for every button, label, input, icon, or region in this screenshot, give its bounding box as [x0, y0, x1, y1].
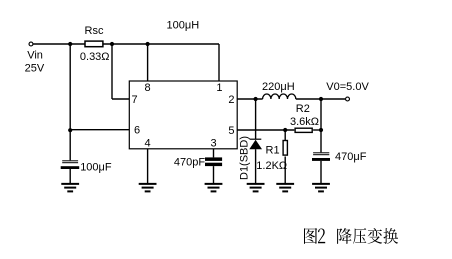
wire pin5 feedback [237, 129, 294, 131]
node switch junction [254, 97, 258, 101]
op-amp U1 (regulator IC) [129, 81, 237, 149]
resistor Rsc [85, 41, 103, 47]
wire pin8 drop [147, 44, 149, 81]
svg-text:1: 1 [216, 82, 222, 94]
terminal V0 [346, 97, 350, 101]
wire to output terminal [296, 98, 345, 100]
caption fig2 text (drawn CJK glyphs) [304, 228, 398, 244]
svg-text:220μH: 220μH [262, 81, 295, 93]
svg-text:D1(SBD): D1(SBD) [239, 136, 251, 180]
wire pin1 drop [218, 44, 220, 81]
node pin6 junction [68, 128, 72, 132]
node input junction [68, 42, 72, 46]
svg-text:2: 2 [228, 94, 234, 106]
svg-text:6: 6 [134, 125, 140, 137]
svg-text:R1: R1 [266, 145, 280, 157]
wire 100uF to ground [69, 169, 71, 184]
svg-text:4: 4 [144, 137, 150, 149]
svg-text:100μH: 100μH [167, 20, 200, 32]
diode D1 (SBD) [249, 99, 262, 184]
ground [247, 184, 265, 192]
svg-text:470pF: 470pF [174, 156, 205, 168]
ground [205, 184, 223, 192]
wire pin4 to ground [147, 149, 149, 184]
svg-text:0.33Ω: 0.33Ω [80, 51, 110, 63]
svg-text:8: 8 [144, 82, 150, 94]
svg-text:100μF: 100μF [80, 161, 112, 173]
capacitor 470uF [312, 152, 330, 161]
resistor R2 [295, 128, 312, 132]
resistor R1 [283, 130, 287, 184]
node after Rsc [110, 42, 114, 46]
wire pin2 [237, 98, 262, 100]
wire input left branch [69, 44, 71, 160]
svg-text:Vin: Vin [27, 49, 43, 61]
capacitor 470pF [205, 157, 222, 166]
wire top rail [33, 43, 219, 45]
wire 470pF to ground [213, 166, 215, 183]
svg-text:V0=5.0V: V0=5.0V [326, 81, 369, 93]
ground [276, 184, 294, 192]
svg-text:25V: 25V [25, 62, 45, 74]
wire output branch vertical [320, 99, 322, 152]
ground [139, 184, 157, 192]
svg-text:Rsc: Rsc [85, 25, 104, 37]
svg-text:7: 7 [131, 94, 137, 106]
node R1 junction [283, 128, 287, 132]
node output junction [319, 97, 323, 101]
wire 470uF to ground [320, 161, 322, 184]
ground [312, 184, 330, 192]
inductor 220uH [263, 94, 296, 99]
svg-text:1.2KΩ: 1.2KΩ [256, 160, 287, 172]
ground [61, 184, 79, 192]
svg-text:3.6kΩ: 3.6kΩ [290, 116, 319, 128]
terminal Vin [29, 42, 33, 46]
wire pin6 [70, 129, 129, 131]
wire R2 to output branch [313, 129, 321, 131]
svg-text:470μF: 470μF [335, 151, 367, 163]
svg-text:5: 5 [228, 125, 234, 137]
svg-text:R2: R2 [296, 103, 310, 115]
wire pin7 branch [112, 44, 129, 99]
node pin8 junction [146, 42, 150, 46]
capacitor 100uF [61, 160, 79, 169]
svg-text:3: 3 [210, 137, 216, 149]
wire pin3 [213, 149, 215, 158]
node output divider junction [319, 128, 323, 132]
